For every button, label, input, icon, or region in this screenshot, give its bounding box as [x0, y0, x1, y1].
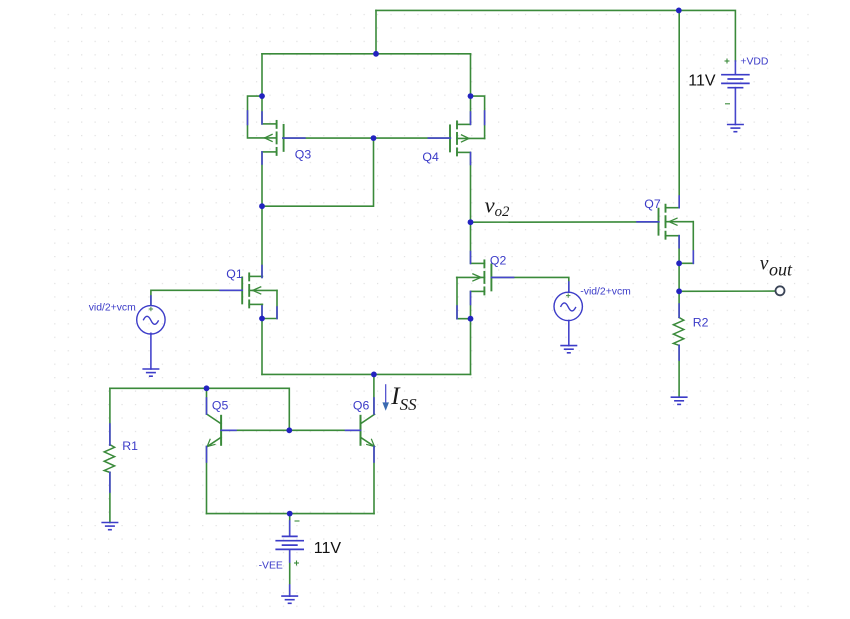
- svg-text:11V: 11V: [688, 72, 716, 89]
- svg-text:-vid/2+vcm: -vid/2+vcm: [580, 287, 631, 298]
- svg-text:Q7: Q7: [644, 197, 661, 211]
- svg-text:R1: R1: [122, 439, 138, 453]
- svg-text:11V: 11V: [314, 540, 342, 557]
- svg-text:Q6: Q6: [353, 399, 370, 413]
- svg-text:Q3: Q3: [295, 147, 312, 161]
- svg-text:-VEE: -VEE: [259, 561, 283, 572]
- svg-text:Q4: Q4: [422, 150, 439, 164]
- svg-text:vid/2+vcm: vid/2+vcm: [89, 303, 136, 314]
- svg-text:+VDD: +VDD: [740, 57, 768, 68]
- svg-text:R2: R2: [693, 315, 709, 329]
- svg-text:Q2: Q2: [490, 253, 507, 267]
- svg-text:Q5: Q5: [212, 398, 229, 412]
- svg-text:Q1: Q1: [226, 267, 243, 281]
